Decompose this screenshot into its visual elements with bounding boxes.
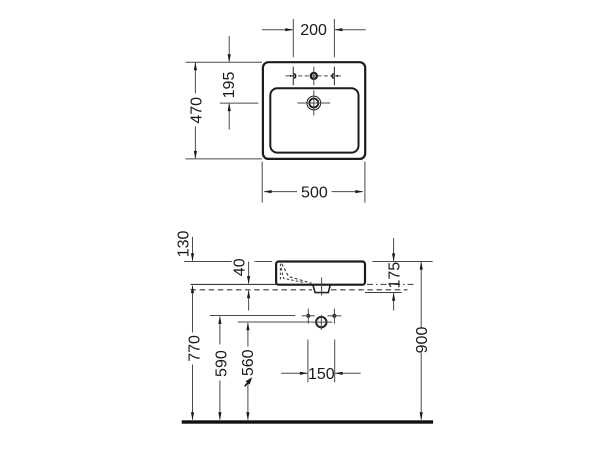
supply connection left (elevation) bbox=[306, 314, 310, 318]
tap hole centerline (dashed horizontal) bbox=[286, 75, 343, 77]
svg-text:500: 500 bbox=[301, 185, 328, 202]
drain crosshair horizontal bbox=[298, 102, 331, 104]
drain tailpiece (elevation) bbox=[313, 285, 330, 293]
dimension 500: left extension line bbox=[261, 162, 263, 203]
svg-text:195: 195 bbox=[221, 72, 238, 99]
dimension 500: line with outward arrows bbox=[264, 191, 297, 193]
basin outer rim (plan view) bbox=[263, 62, 365, 159]
dimension 200: right extension line bbox=[333, 19, 335, 57]
mounting line (solid, left of basin) bbox=[191, 283, 277, 285]
lower dashed reference line bbox=[191, 289, 313, 291]
floor line bbox=[182, 420, 433, 423]
dimension 470: bottom extension line bbox=[186, 158, 263, 160]
ground (hatched) area dashes 3 (left edge) bbox=[279, 264, 281, 280]
basin inner bowl (plan view) bbox=[270, 88, 358, 152]
svg-text:175: 175 bbox=[387, 262, 404, 289]
dimension 470: line lower segment with down arrow bbox=[194, 127, 196, 159]
short reference line right (175 lower datum) bbox=[365, 292, 402, 294]
svg-text:200: 200 bbox=[300, 22, 327, 39]
drain connection (elevation) bbox=[316, 317, 326, 327]
optional tap hole (left) crosshair bbox=[292, 67, 294, 86]
dimension 195: lower outside arrow (points up) bbox=[228, 104, 230, 130]
dimension 150: right extension line bbox=[334, 340, 336, 383]
supply connection extension line bbox=[210, 315, 295, 317]
svg-text:40: 40 bbox=[231, 258, 248, 276]
dimension 770: line with text gap bbox=[192, 286, 194, 333]
svg-text:130: 130 bbox=[175, 230, 192, 257]
dimension 560: line with text gap bbox=[247, 323, 249, 347]
rim-level extension line (left, with gap for 40 label) bbox=[184, 261, 232, 263]
tap hole C1 (center, punched) bbox=[311, 73, 317, 79]
dimension 175: lower outside arrow (points up) bbox=[393, 293, 395, 310]
mounting line (dash-dot, right of basin) bbox=[367, 283, 416, 285]
basin profile (elevation) bbox=[276, 262, 365, 285]
dimension 470: line upper segment with up arrow bbox=[194, 63, 196, 94]
dimension 200: left arrow bbox=[262, 29, 293, 31]
dimension 150: left extension line bbox=[307, 340, 309, 383]
drain / overflow (plan view) outer circle bbox=[307, 96, 321, 110]
drain (plan view) inner circle bbox=[309, 99, 318, 108]
svg-text:470: 470 bbox=[188, 97, 205, 124]
svg-text:900: 900 bbox=[414, 327, 431, 354]
dimension 150: left arrow bbox=[281, 372, 307, 374]
dimension 200: left extension line bbox=[292, 19, 294, 57]
dimension 900: line with text gap bbox=[420, 262, 422, 327]
dimension 560: variable-dimension diagonal arrow bbox=[245, 381, 249, 386]
dimension 40: outside arrow pointing up to dashed line bbox=[248, 291, 250, 311]
dimension 470: top extension line bbox=[186, 61, 263, 63]
ground (hatched) area dashes 2 bbox=[281, 268, 303, 282]
drain crosshair vertical bbox=[313, 90, 315, 115]
dimension 200: right arrow bbox=[335, 29, 366, 31]
supply connection right (elevation) bbox=[332, 314, 336, 318]
dimension 175: upper outside arrow (points down) bbox=[393, 238, 395, 261]
svg-text:560: 560 bbox=[240, 349, 257, 376]
dimension 195: extension line at drain level bbox=[220, 102, 258, 104]
dimension 40: outside arrow pointing down to mounting line bbox=[248, 262, 250, 284]
dimension 130: upper outside arrow (points down) bbox=[192, 237, 194, 261]
dimension 150: right arrow bbox=[335, 372, 360, 374]
dimension 195: upper outside arrow (points down) bbox=[228, 36, 230, 62]
dimension 590: line with text gap bbox=[219, 317, 221, 345]
drain connection extension line bbox=[238, 321, 310, 323]
svg-text:770: 770 bbox=[186, 335, 203, 362]
dimension 500: right extension line bbox=[364, 162, 366, 203]
svg-text:150: 150 bbox=[308, 366, 335, 383]
rim-level extension line (right) bbox=[372, 261, 432, 263]
drain tailpiece centerline bbox=[321, 278, 323, 296]
tap hole C1 vertical centerline bbox=[313, 67, 315, 86]
optional tap hole (right) crosshair bbox=[333, 67, 335, 86]
svg-text:590: 590 bbox=[213, 350, 230, 377]
ground (hatched) area dashes 1 bbox=[282, 264, 312, 283]
